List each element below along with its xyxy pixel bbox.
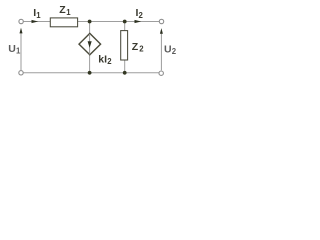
svg-text:1: 1 xyxy=(36,11,41,20)
svg-text:2: 2 xyxy=(139,11,144,20)
svg-text:kI: kI xyxy=(98,53,107,65)
svg-text:1: 1 xyxy=(66,8,71,17)
svg-text:1: 1 xyxy=(16,47,21,56)
svg-text:U: U xyxy=(164,43,172,55)
svg-text:Z: Z xyxy=(132,41,139,53)
svg-text:2: 2 xyxy=(139,45,144,54)
svg-text:2: 2 xyxy=(172,47,177,56)
svg-text:U: U xyxy=(8,43,16,55)
svg-text:2: 2 xyxy=(107,57,112,66)
